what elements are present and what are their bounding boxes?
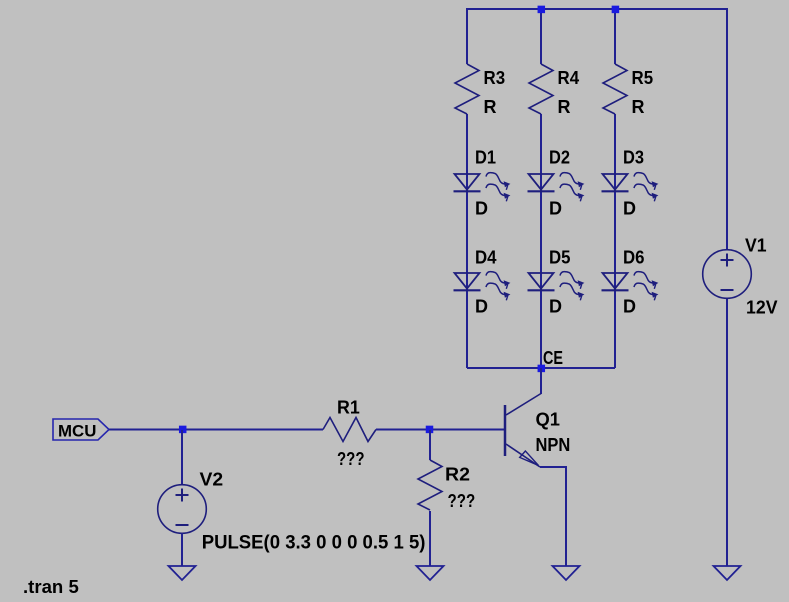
wire V2 top	[181, 430, 183, 485]
svg-text:Q1: Q1	[536, 410, 561, 430]
LED D5	[528, 248, 585, 317]
svg-text:CE: CE	[543, 348, 563, 368]
wire column2 upper	[540, 9, 542, 64]
wire column2 lower	[540, 114, 542, 368]
svg-text:R: R	[484, 97, 497, 117]
svg-text:D: D	[549, 297, 562, 317]
wire column3 lower	[614, 114, 616, 368]
svg-text:???: ???	[337, 449, 365, 469]
svg-text:D: D	[623, 297, 636, 317]
wire R1 to base node	[376, 429, 505, 431]
svg-text:V2: V2	[200, 470, 224, 490]
LED D1	[454, 148, 511, 219]
wire V1 column lower	[726, 298, 728, 566]
svg-text:???: ???	[448, 491, 476, 511]
LED D3	[602, 148, 659, 219]
junction V2	[179, 426, 187, 434]
resistor R3	[455, 64, 505, 117]
svg-text:D4: D4	[475, 248, 497, 268]
wire emitter	[540, 467, 566, 566]
wire top rail	[467, 9, 727, 10]
svg-text:R4: R4	[558, 68, 580, 88]
voltage source V1	[703, 236, 778, 318]
wire column1 lower	[466, 114, 468, 368]
junction CE	[538, 365, 546, 373]
ground V2	[169, 566, 196, 580]
LED D6	[602, 248, 659, 317]
resistor R4	[529, 64, 579, 117]
svg-text:R5: R5	[632, 68, 654, 88]
svg-text:D: D	[623, 199, 636, 219]
resistor R1	[323, 398, 376, 470]
ground R2	[417, 566, 444, 580]
svg-text:V1: V1	[745, 236, 767, 256]
node CE label	[543, 348, 563, 368]
transistor Q1	[505, 394, 570, 468]
spice directive .tran 5	[23, 577, 79, 597]
wire column3 upper	[614, 9, 616, 64]
LED D2	[528, 148, 585, 219]
svg-text:D6: D6	[623, 248, 645, 268]
svg-text:D5: D5	[549, 248, 571, 268]
svg-text:R: R	[558, 97, 571, 117]
ground Q1 emitter	[553, 566, 580, 580]
wire V1 column upper	[726, 9, 728, 250]
svg-text:R1: R1	[337, 398, 360, 418]
wire V2 bottom	[181, 534, 183, 567]
voltage source V2	[158, 470, 426, 554]
svg-text:D: D	[549, 199, 562, 219]
wire R2 bottom	[429, 511, 431, 566]
svg-text:D: D	[475, 297, 488, 317]
svg-text:R3: R3	[484, 68, 506, 88]
svg-text:D1: D1	[475, 148, 496, 168]
wire column1 upper	[466, 9, 468, 64]
LED D4	[454, 248, 511, 317]
wire MCU to base	[109, 429, 323, 431]
junction R2	[426, 426, 434, 434]
svg-text:MCU: MCU	[58, 422, 96, 441]
svg-text:12V: 12V	[746, 298, 778, 318]
ground V1	[714, 566, 741, 580]
svg-text:R: R	[632, 97, 645, 117]
resistor R2	[418, 460, 475, 511]
wire collector	[540, 368, 542, 394]
svg-text:R2: R2	[445, 465, 470, 485]
svg-text:D: D	[475, 199, 488, 219]
wire R2 top	[429, 430, 431, 460]
svg-text:D2: D2	[549, 148, 570, 168]
resistor R5	[603, 64, 653, 117]
svg-text:NPN: NPN	[536, 435, 571, 455]
wire CE bus	[467, 367, 615, 369]
svg-text:D3: D3	[623, 148, 644, 168]
flag MCU	[53, 419, 109, 441]
junction top rail col3	[612, 6, 620, 13]
svg-text:.tran 5: .tran 5	[23, 577, 79, 597]
svg-text:PULSE(0 3.3 0 0 0 0.5 1 5): PULSE(0 3.3 0 0 0 0.5 1 5)	[202, 533, 426, 554]
junction top rail col2	[538, 6, 546, 13]
